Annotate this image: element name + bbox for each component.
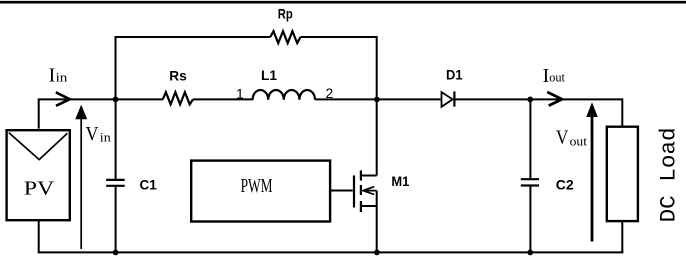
PWM block: [191, 161, 330, 222]
svg-text:Rp: Rp: [278, 5, 293, 21]
node C junction dot (output node): [527, 97, 533, 103]
diode D1: [442, 91, 455, 106]
PV source box: [7, 130, 70, 220]
wire: Rp loop right vertical: [376, 36, 378, 99]
svg-text:in: in: [56, 70, 68, 85]
svg-text:D1: D1: [446, 67, 463, 83]
PV panel chevron: [9, 133, 68, 160]
node A junction dot (input node): [113, 97, 119, 103]
wire: main line node A to Rs: [116, 98, 164, 100]
svg-text:out: out: [570, 133, 588, 148]
wire: PV top vertical and input segment to node A: [39, 99, 116, 128]
resistor Rs: [163, 92, 193, 104]
arrow Vin (voltage arrow): [75, 105, 87, 249]
wire: gate drive from PWM to M1 gate: [330, 190, 353, 192]
wire: bottom return rail: [39, 221, 623, 253]
svg-text:L1: L1: [261, 67, 277, 83]
top border rule: [0, 1, 686, 4]
capacitor C2 upper lead: [529, 99, 531, 178]
wire: DC load bottom lead: [621, 221, 623, 252]
junction dot bottom M1 source: [374, 250, 380, 256]
svg-text:V: V: [556, 127, 569, 149]
arrow Vout (voltage arrow): [586, 102, 598, 241]
arrow Iin (current arrow on input wire): [56, 92, 70, 106]
wire: M1 drain vertical: [376, 99, 378, 175]
svg-text:out: out: [549, 70, 565, 85]
inductor L1: [253, 90, 315, 100]
resistor Rp: [270, 31, 300, 43]
svg-text:1: 1: [236, 86, 244, 102]
svg-text:C1: C1: [140, 176, 157, 192]
node B junction dot (drain/Rp node): [374, 97, 380, 103]
capacitor C1 lower lead: [115, 187, 117, 253]
transistor M1 (n-MOSFET): [354, 170, 377, 212]
capacitor C2: [521, 179, 539, 185]
svg-text:I: I: [49, 65, 56, 87]
wire: Rp loop left vertical: [115, 36, 117, 99]
wire: M1 source/body vertical to ground rail: [376, 191, 378, 253]
capacitor C1 upper lead: [115, 99, 117, 179]
svg-text:M1: M1: [391, 173, 409, 189]
junction dot bottom C2: [527, 250, 533, 256]
DC load box: [607, 127, 638, 221]
wire: diode to output node: [454, 98, 622, 100]
svg-text:C2: C2: [556, 176, 574, 192]
wire: L1 to diode D1: [315, 98, 441, 100]
svg-text:Rs: Rs: [169, 67, 187, 83]
svg-text:PWM: PWM: [241, 175, 273, 197]
svg-text:DC Load: DC Load: [657, 127, 682, 222]
capacitor C2 lower lead: [529, 186, 531, 252]
wire: output corner down to DC load top: [621, 98, 623, 126]
svg-text:in: in: [100, 130, 112, 145]
junction dot bottom C1: [113, 250, 119, 256]
wire: top loop left segment: [115, 36, 271, 38]
svg-text:V: V: [86, 123, 99, 145]
svg-text:PV: PV: [24, 178, 55, 200]
arrow Iout (current arrow on output wire): [547, 92, 562, 106]
capacitor C1: [106, 180, 125, 186]
wire: top loop right segment: [301, 36, 378, 38]
wire: Rs to L1: [193, 98, 253, 100]
